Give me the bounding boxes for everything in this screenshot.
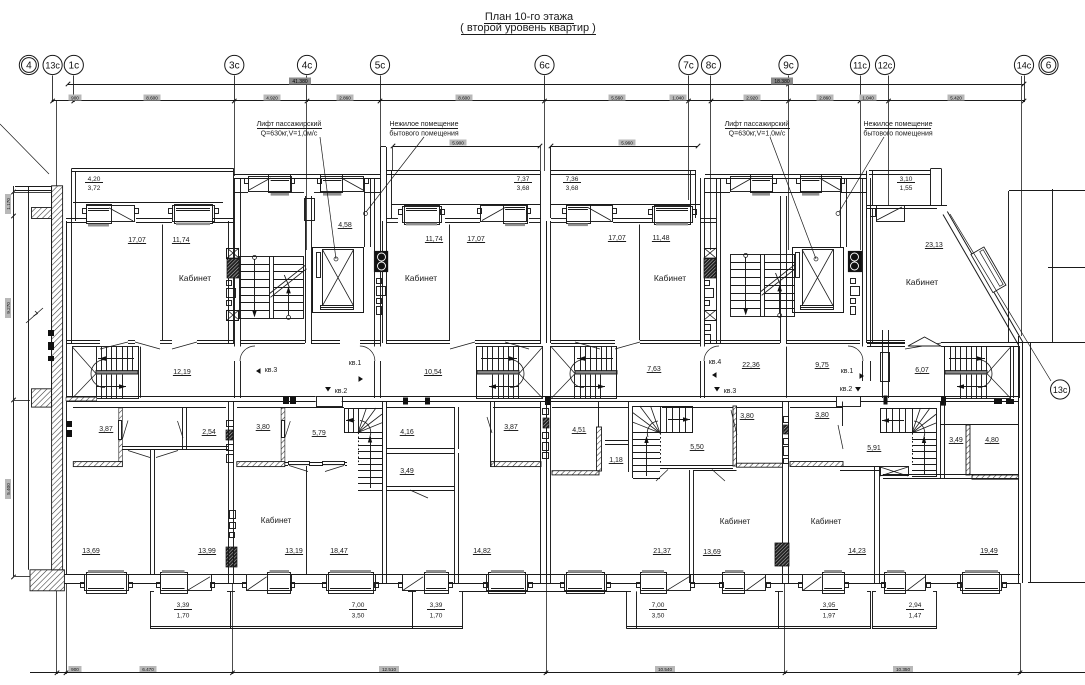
svg-text:18.380: 18.380 — [774, 79, 790, 85]
svg-text:3,39: 3,39 — [430, 602, 443, 609]
svg-text:3,68: 3,68 — [566, 185, 579, 192]
svg-text:( второй уровень квартир ): ( второй уровень квартир ) — [460, 22, 596, 34]
svg-text:2.860: 2.860 — [819, 96, 831, 101]
svg-text:1.170: 1.170 — [6, 198, 11, 210]
svg-text:кв.2: кв.2 — [840, 386, 853, 393]
svg-text:3,87: 3,87 — [504, 424, 518, 431]
svg-text:6: 6 — [1046, 60, 1052, 71]
svg-text:3,39: 3,39 — [177, 602, 190, 609]
svg-text:3,50: 3,50 — [652, 613, 665, 620]
svg-text:5.420: 5.420 — [950, 96, 962, 101]
svg-text:4,16: 4,16 — [400, 429, 414, 436]
svg-text:4,20: 4,20 — [88, 176, 101, 183]
svg-text:13,19: 13,19 — [285, 548, 303, 555]
svg-text:7,36: 7,36 — [566, 176, 579, 183]
svg-text:5с: 5с — [375, 60, 386, 71]
svg-text:2.860: 2.860 — [339, 96, 351, 101]
svg-text:13с: 13с — [1053, 385, 1068, 395]
svg-text:5,91: 5,91 — [867, 445, 881, 452]
svg-text:1,47: 1,47 — [909, 613, 922, 620]
svg-text:9.270: 9.270 — [6, 302, 11, 314]
svg-text:7с: 7с — [683, 60, 694, 71]
svg-text:13,69: 13,69 — [82, 548, 100, 555]
svg-text:17,07: 17,07 — [467, 236, 485, 243]
svg-text:5.960: 5.960 — [621, 141, 633, 146]
svg-text:11,74: 11,74 — [173, 237, 190, 244]
svg-text:19,49: 19,49 — [980, 548, 998, 555]
svg-text:Кабинет: Кабинет — [261, 516, 292, 525]
svg-text:Кабинет: Кабинет — [654, 273, 686, 283]
svg-text:кв.4: кв.4 — [709, 359, 722, 366]
svg-text:4,80: 4,80 — [985, 437, 999, 444]
svg-text:8.600: 8.600 — [146, 96, 158, 101]
svg-text:10,54: 10,54 — [424, 369, 442, 376]
svg-text:1с: 1с — [69, 60, 80, 71]
svg-text:17,07: 17,07 — [128, 237, 146, 244]
svg-text:3с: 3с — [229, 60, 240, 71]
svg-text:12.510: 12.510 — [382, 667, 396, 672]
svg-text:900: 900 — [71, 667, 79, 672]
svg-text:3,80: 3,80 — [256, 424, 270, 431]
svg-text:6,07: 6,07 — [915, 367, 929, 374]
svg-text:14,23: 14,23 — [848, 548, 866, 555]
svg-text:3,68: 3,68 — [517, 185, 530, 192]
svg-text:10.540: 10.540 — [658, 667, 672, 672]
svg-text:кв.3: кв.3 — [265, 367, 278, 374]
svg-text:Нежилое помещение: Нежилое помещение — [864, 121, 933, 128]
svg-text:12с: 12с — [878, 60, 893, 70]
svg-text:1,18: 1,18 — [609, 457, 623, 464]
svg-text:кв.1: кв.1 — [841, 368, 854, 375]
svg-text:9с: 9с — [783, 60, 794, 71]
svg-text:1,70: 1,70 — [430, 613, 443, 620]
svg-text:13,69: 13,69 — [703, 549, 721, 556]
svg-text:9,75: 9,75 — [815, 362, 829, 369]
svg-text:8с: 8с — [706, 60, 717, 71]
svg-text:кв.1: кв.1 — [349, 360, 362, 367]
svg-text:5.900: 5.900 — [452, 141, 464, 146]
svg-text:23,13: 23,13 — [925, 242, 943, 249]
svg-text:3,72: 3,72 — [88, 185, 101, 192]
svg-text:7,00: 7,00 — [652, 602, 665, 609]
svg-text:Лифт пассажирский: Лифт пассажирский — [725, 120, 790, 128]
svg-text:41.380: 41.380 — [292, 79, 308, 85]
svg-text:14,82: 14,82 — [473, 548, 491, 555]
svg-text:Лифт пассажирский: Лифт пассажирский — [257, 120, 322, 128]
svg-text:14с: 14с — [1017, 60, 1032, 70]
svg-text:6.470: 6.470 — [142, 667, 154, 672]
svg-text:Q=630кг,V=1,0м/с: Q=630кг,V=1,0м/с — [729, 131, 786, 138]
svg-text:кв.3: кв.3 — [724, 388, 737, 395]
svg-text:3,10: 3,10 — [900, 176, 913, 183]
svg-text:11с: 11с — [853, 60, 867, 70]
svg-text:4,58: 4,58 — [338, 222, 352, 229]
svg-text:4,51: 4,51 — [572, 427, 586, 434]
svg-text:17,07: 17,07 — [608, 235, 626, 242]
svg-text:13с: 13с — [45, 60, 60, 70]
svg-text:6с: 6с — [539, 60, 550, 71]
svg-text:1,70: 1,70 — [177, 613, 190, 620]
svg-text:3,95: 3,95 — [823, 602, 836, 609]
svg-text:бытового помещения: бытового помещения — [863, 130, 933, 138]
svg-text:кв.2: кв.2 — [335, 388, 348, 395]
svg-text:7,00: 7,00 — [352, 602, 365, 609]
svg-text:5.400: 5.400 — [6, 483, 11, 495]
svg-text:8.600: 8.600 — [458, 96, 470, 101]
svg-text:4.920: 4.920 — [266, 96, 278, 101]
svg-text:900: 900 — [71, 96, 79, 101]
svg-text:1.040: 1.040 — [862, 96, 874, 101]
svg-text:4: 4 — [26, 60, 32, 71]
svg-text:5,50: 5,50 — [690, 444, 704, 451]
svg-text:Кабинет: Кабинет — [405, 273, 437, 283]
svg-text:2,94: 2,94 — [909, 602, 922, 609]
svg-text:5,79: 5,79 — [312, 430, 326, 437]
svg-text:3,87: 3,87 — [99, 426, 113, 433]
svg-text:11,48: 11,48 — [653, 235, 670, 242]
svg-text:3,80: 3,80 — [740, 413, 754, 420]
svg-text:2.920: 2.920 — [746, 96, 758, 101]
svg-text:1,97: 1,97 — [823, 613, 836, 620]
svg-text:3,50: 3,50 — [352, 613, 365, 620]
svg-text:18,47: 18,47 — [330, 548, 348, 555]
svg-text:2,54: 2,54 — [202, 429, 216, 436]
svg-text:3,49: 3,49 — [949, 437, 963, 444]
svg-text:13,99: 13,99 — [198, 548, 216, 555]
svg-text:бытового помещения: бытового помещения — [389, 130, 459, 138]
svg-text:22,36: 22,36 — [742, 362, 760, 369]
svg-text:3,49: 3,49 — [400, 468, 414, 475]
svg-text:Q=630кг,V=1,0м/с: Q=630кг,V=1,0м/с — [261, 131, 318, 138]
svg-text:12,19: 12,19 — [173, 369, 191, 376]
svg-text:Кабинет: Кабинет — [906, 277, 938, 287]
svg-text:21,37: 21,37 — [653, 548, 671, 555]
svg-text:7,37: 7,37 — [517, 176, 530, 183]
svg-text:1,55: 1,55 — [900, 185, 913, 192]
svg-text:Кабинет: Кабинет — [720, 517, 751, 526]
svg-text:4с: 4с — [302, 60, 313, 71]
svg-text:1.040: 1.040 — [672, 96, 684, 101]
svg-text:11,74: 11,74 — [426, 236, 443, 243]
svg-text:Кабинет: Кабинет — [811, 517, 842, 526]
svg-text:3,80: 3,80 — [815, 412, 829, 419]
svg-text:7,63: 7,63 — [647, 366, 661, 373]
svg-text:10.350: 10.350 — [896, 667, 910, 672]
svg-text:5.560: 5.560 — [611, 96, 623, 101]
svg-text:Кабинет: Кабинет — [179, 273, 211, 283]
svg-text:Нежилое помещение: Нежилое помещение — [390, 121, 459, 128]
